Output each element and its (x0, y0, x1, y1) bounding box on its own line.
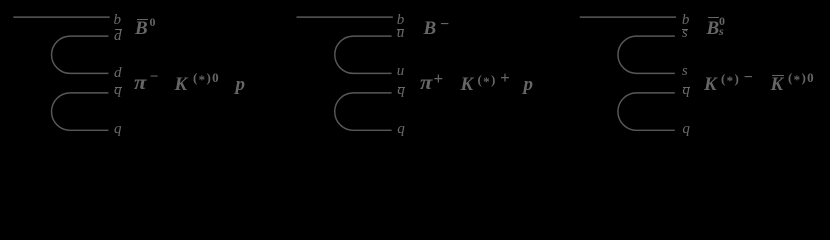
label ubar (397, 26, 405, 41)
diagram 2: qbar/q loop (335, 93, 392, 130)
label d (114, 66, 122, 81)
diagram 2: b quark line (297, 16, 393, 18)
label qbar (682, 83, 690, 98)
diagram 2 B- (424, 19, 437, 38)
bar of qbar (683, 87, 690, 88)
diagram 3: qbar/q loop (618, 93, 675, 130)
diagram 3 K(*)- (704, 75, 717, 94)
bar of sbar (682, 29, 688, 30)
diagram 1: dbar/d loop (52, 36, 109, 73)
diagram 2: ubar/u loop (335, 36, 392, 73)
diagram 1: b quark line (13, 16, 109, 18)
diagram 3: sbar/s loop (618, 36, 675, 73)
diagram 2 p (524, 75, 534, 94)
label s (682, 64, 688, 79)
label b (682, 13, 690, 28)
diagram 3: b quark line (580, 16, 676, 18)
diagram 1 p (236, 75, 246, 94)
label q (682, 122, 690, 137)
diagram 1 pi- (134, 72, 146, 93)
diagram 1 Bbar0 (135, 19, 148, 38)
label qbar (397, 83, 405, 98)
diagram 2 pi+ (420, 72, 432, 93)
bar of dbar (115, 29, 122, 30)
diagram 2 K(*)+ (461, 75, 474, 94)
bar of qbar (398, 87, 405, 88)
label q (397, 122, 405, 137)
wires: quark lines of three diagrams (0, 0, 830, 147)
label u (397, 64, 405, 79)
diagram 3 Bbar_s^0 (707, 19, 720, 38)
label sbar (682, 26, 688, 41)
label b (397, 13, 405, 28)
label q (114, 122, 122, 137)
diagram 1: qbar/q loop (51, 93, 108, 130)
label dbar (114, 29, 122, 44)
bar of ubar (397, 29, 404, 30)
label b (114, 13, 122, 28)
bar of qbar (115, 87, 122, 88)
diagram 1 K(*)0 (175, 75, 188, 94)
label qbar (114, 83, 122, 98)
diagram 3 Kbar(*)0 (771, 75, 784, 94)
